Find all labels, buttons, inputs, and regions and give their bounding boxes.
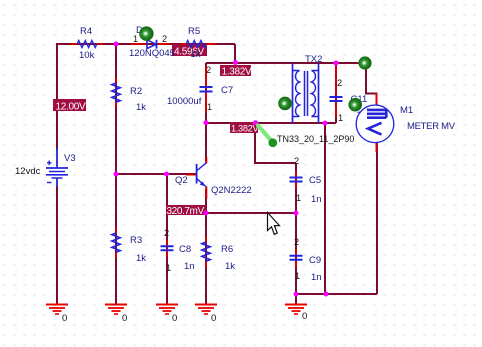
svg-text:C8: C8 bbox=[179, 244, 191, 255]
wire collector stem x=206 y123 to transistor bbox=[205, 123, 207, 162]
node C11 top bbox=[334, 61, 339, 66]
wire C11 stem x=336 y63 to y123 bbox=[335, 63, 337, 123]
svg-text:2: 2 bbox=[337, 78, 342, 88]
wire C7 bottom horizontal y=123 to TN junction bbox=[206, 122, 336, 124]
svg-text:1n: 1n bbox=[311, 272, 322, 283]
svg-text:1n: 1n bbox=[184, 261, 195, 272]
meter M1 bbox=[356, 93, 456, 152]
wire C7 stem x=206 y63 to y123 bbox=[205, 63, 207, 123]
wire meter bottom x=377 bbox=[376, 142, 378, 294]
ground 0 (C8) bbox=[156, 305, 178, 325]
resistor R4 bbox=[70, 26, 103, 61]
svg-text:R2: R2 bbox=[130, 86, 142, 97]
svg-text:V3: V3 bbox=[64, 153, 76, 164]
node C7 top corner bbox=[233, 60, 238, 65]
probe marker at meter branch bbox=[358, 56, 371, 69]
svg-text:1k: 1k bbox=[225, 261, 235, 272]
wire TN branch x=325 down to bottom rail bbox=[324, 123, 326, 294]
svg-text:R5: R5 bbox=[188, 26, 200, 37]
resistor R6 bbox=[202, 237, 235, 272]
wire mid rail y=63 from C7 to meter branch bbox=[206, 62, 366, 64]
node ground right bbox=[294, 292, 299, 297]
svg-text:Q2: Q2 bbox=[175, 175, 188, 186]
node 1.382V branch bbox=[253, 120, 258, 125]
junction node dots bbox=[114, 42, 339, 297]
ground 0 (R3) bbox=[105, 305, 127, 325]
svg-text:1: 1 bbox=[166, 263, 171, 273]
bias voltage box 320.7mV bbox=[166, 205, 206, 217]
svg-text:R6: R6 bbox=[221, 244, 233, 255]
svg-text:2: 2 bbox=[162, 34, 167, 44]
svg-text:10k: 10k bbox=[79, 50, 95, 61]
resistor R5 bbox=[180, 26, 216, 60]
wire bottom rail y=294 bbox=[296, 293, 377, 295]
svg-text:2: 2 bbox=[164, 228, 169, 238]
battery V3 bbox=[15, 148, 76, 187]
bias voltage box 1.382V (lower) bbox=[230, 122, 259, 134]
ground 0 (R6) bbox=[195, 305, 217, 325]
resistor R2 bbox=[112, 78, 146, 113]
wire branch x=255 down and right to C5 bbox=[255, 123, 296, 163]
svg-text:C9: C9 bbox=[309, 255, 321, 266]
capacitor C9 bbox=[290, 237, 322, 283]
wire C5/C9 stem x=296 bbox=[295, 163, 297, 294]
bias voltage box 4.596V bbox=[172, 44, 207, 58]
node emitter bbox=[204, 211, 209, 216]
probe marker on D1 bbox=[139, 26, 153, 40]
svg-text:10000uf: 10000uf bbox=[167, 96, 202, 107]
svg-text:TN33_20_11_2P90: TN33_20_11_2P90 bbox=[277, 134, 354, 144]
ground 0 (C9/right) bbox=[285, 294, 307, 322]
svg-text:C7: C7 bbox=[221, 85, 233, 96]
diode D1 bbox=[129, 25, 175, 59]
mouse cursor bbox=[268, 213, 280, 235]
svg-text:TX2: TX2 bbox=[305, 54, 322, 65]
probe marker left of TX2 bbox=[278, 97, 292, 111]
wire R2 rail x=116 from top rail to R3 and ground bbox=[115, 44, 117, 304]
svg-text:1k: 1k bbox=[191, 49, 201, 60]
svg-text:120NQ045: 120NQ045 bbox=[129, 48, 175, 59]
node R4/R2 top bbox=[114, 42, 119, 47]
svg-text:12.00V: 12.00V bbox=[56, 102, 87, 113]
svg-text:1: 1 bbox=[207, 102, 212, 112]
ground 0 (V3) bbox=[46, 305, 68, 325]
probe marker on C11 bbox=[348, 98, 362, 112]
svg-text:M1: M1 bbox=[400, 105, 413, 116]
node base rail bbox=[114, 172, 119, 177]
svg-text:2: 2 bbox=[294, 156, 299, 166]
wire battery bottom to ground bbox=[56, 186, 58, 304]
node C5/C9 bbox=[294, 211, 299, 216]
node TN branch bbox=[323, 121, 328, 126]
svg-text:1: 1 bbox=[295, 271, 300, 281]
capacitor C7 bbox=[167, 65, 233, 112]
svg-text:R3: R3 bbox=[130, 235, 142, 246]
svg-text:1: 1 bbox=[296, 193, 301, 203]
svg-text:2: 2 bbox=[294, 237, 299, 247]
svg-text:1: 1 bbox=[338, 113, 343, 123]
svg-text:1.382V: 1.382V bbox=[222, 67, 253, 78]
wire meter branch x=366 bbox=[366, 63, 377, 105]
wire corner x=235 y44 to y63 bbox=[234, 44, 236, 63]
svg-text:0: 0 bbox=[62, 313, 67, 324]
wire base y=174 from R2 rail to Q2 bbox=[116, 173, 196, 175]
svg-text:METER MV: METER MV bbox=[407, 121, 456, 132]
svg-text:0: 0 bbox=[211, 313, 216, 324]
resistor R3 bbox=[112, 228, 146, 264]
svg-text:1: 1 bbox=[133, 34, 138, 44]
transformer TX2 bbox=[293, 54, 323, 123]
probe cursor (green pen) bbox=[258, 126, 277, 148]
node C8 top bbox=[164, 172, 169, 177]
svg-text:320.7mV: 320.7mV bbox=[167, 206, 205, 217]
node C7 bottom bbox=[204, 120, 209, 125]
capacitor C5 bbox=[290, 156, 322, 205]
wire R6 stem x=206 y213 to ground bbox=[205, 213, 207, 304]
capacitor C8 bbox=[161, 228, 195, 273]
svg-text:1n: 1n bbox=[311, 194, 322, 205]
wire top rail y=44 from left corner to R5 right bbox=[57, 43, 235, 45]
wire C8 stem x=167 bbox=[166, 174, 168, 304]
svg-text:0: 0 bbox=[172, 313, 177, 324]
transistor Q2 bbox=[175, 157, 252, 199]
wire emitter x=206 down, and horizontal y=213 to C5 junction bbox=[166, 189, 296, 213]
svg-text:0: 0 bbox=[122, 313, 127, 324]
svg-text:C5: C5 bbox=[309, 175, 321, 186]
bias voltage box 12.00V bbox=[53, 99, 86, 113]
bias voltage box 1.382V (top, right of C7) bbox=[220, 65, 252, 78]
svg-text:1k: 1k bbox=[136, 253, 146, 264]
wire left rail x=57 down to battery bbox=[56, 43, 58, 150]
svg-text:2: 2 bbox=[206, 65, 211, 75]
svg-text:0: 0 bbox=[302, 311, 307, 322]
svg-text:12vdc: 12vdc bbox=[15, 166, 41, 177]
svg-text:Q2N2222: Q2N2222 bbox=[211, 185, 252, 196]
svg-text:1k: 1k bbox=[136, 102, 146, 113]
capacitor C11 bbox=[330, 66, 368, 123]
node bottom rail bbox=[324, 292, 329, 297]
svg-text:R4: R4 bbox=[80, 26, 92, 37]
